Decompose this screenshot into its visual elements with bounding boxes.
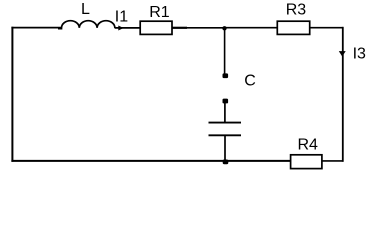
svg-text:I3: I3	[353, 46, 366, 63]
wire R4 to bottom-right corner	[322, 160, 344, 162]
wire inductor to R1	[115, 27, 141, 29]
svg-text:R4: R4	[298, 136, 319, 153]
current arrow I1	[118, 26, 123, 31]
wire bottom rail left	[11, 160, 290, 162]
wire R1 pin lead	[172, 27, 187, 29]
wire switch to capacitor	[224, 103, 226, 122]
resistor R4	[291, 155, 322, 169]
inductor L	[58, 21, 115, 29]
resistor R3	[277, 21, 309, 34]
wire capacitor to bottom rail	[224, 136, 226, 161]
resistor R1	[140, 21, 172, 34]
capacitor C top plate	[209, 122, 242, 124]
wire node to R3	[225, 27, 278, 29]
wire right vertical	[342, 27, 344, 162]
node junction dot	[222, 26, 226, 30]
svg-text:R3: R3	[286, 2, 307, 19]
wire R3 to top-right corner	[310, 27, 344, 29]
switch terminal dot upper	[223, 73, 229, 78]
svg-text:L: L	[81, 1, 90, 18]
wire node to switch top terminal	[224, 28, 226, 74]
wire left vertical	[11, 27, 13, 162]
svg-text:I1: I1	[115, 8, 128, 25]
bottom junction dot	[223, 160, 229, 165]
svg-text:R1: R1	[149, 4, 170, 21]
switch terminal dot lower	[223, 99, 229, 104]
wire R1 to node	[187, 27, 225, 29]
wire top-left horizontal	[11, 27, 62, 29]
capacitor C bottom plate	[209, 134, 242, 136]
current arrow I3	[339, 51, 346, 56]
svg-text:C: C	[244, 72, 256, 89]
